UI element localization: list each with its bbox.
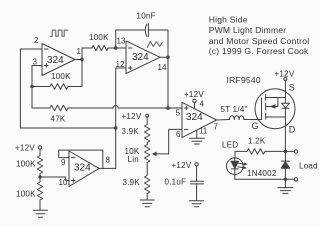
node dot divider midpoint xyxy=(38,175,41,178)
wire oscillator output xyxy=(75,48,82,87)
svg-text:7: 7 xyxy=(214,123,219,132)
potentiometer 10K Lin xyxy=(125,145,169,165)
svg-text:and Motor Speed Control: and Motor Speed Control xyxy=(209,36,310,46)
capacitor C2 0.1uF bypass xyxy=(165,166,204,200)
+12V terminal bypass xyxy=(172,161,199,170)
svg-text:S: S xyxy=(289,83,295,93)
op-amp U1a oscillator 324 xyxy=(33,36,82,76)
wire pin12 stub and node B vertical xyxy=(116,68,126,168)
load terminal bottom xyxy=(294,178,297,181)
svg-text:0.1uF: 0.1uF xyxy=(165,177,187,186)
title text xyxy=(209,14,310,56)
svg-text:13: 13 xyxy=(117,37,126,46)
wire 47K row to pin5 xyxy=(118,107,182,109)
svg-text:IRF9540: IRF9540 xyxy=(227,75,261,85)
inductor L1 5T xyxy=(221,105,248,119)
load terminal top xyxy=(285,150,297,153)
resistor R 1.2K xyxy=(235,137,285,155)
svg-text:+12V: +12V xyxy=(122,112,142,121)
wire pin2 to node B xyxy=(20,49,115,128)
ground load xyxy=(278,179,293,193)
wire midpoint to pin10 xyxy=(40,177,69,181)
transistor Q1 IRF9540 xyxy=(227,75,296,135)
diode D1 1N4002 flyback xyxy=(247,161,290,179)
wire drain xyxy=(284,117,286,161)
svg-text:+12V: +12V xyxy=(184,90,204,99)
svg-text:9: 9 xyxy=(61,158,66,167)
svg-text:6: 6 xyxy=(176,130,181,139)
svg-text:47K: 47K xyxy=(51,115,66,124)
svg-text:1.2K: 1.2K xyxy=(248,137,266,146)
svg-text:100K: 100K xyxy=(16,190,36,199)
wire hop over vertical at 115.7 xyxy=(113,106,118,109)
node dot triangle node at comparator xyxy=(166,106,169,109)
svg-text:High Side: High Side xyxy=(209,14,248,24)
svg-text:324: 324 xyxy=(74,163,91,174)
resistor R 3.9K lower xyxy=(123,165,150,200)
ground left divider xyxy=(34,210,48,217)
node dot oscillator output xyxy=(80,58,83,61)
+12V terminal left divider xyxy=(15,144,42,153)
wire integrator output xyxy=(160,57,168,108)
svg-text:324: 324 xyxy=(47,55,64,66)
svg-text:324: 324 xyxy=(132,52,149,63)
svg-text:1: 1 xyxy=(77,47,82,56)
op-amp U1d integrator 324 xyxy=(116,37,167,74)
LED D2 indicator xyxy=(222,141,248,180)
wire bottom rail LED to load xyxy=(235,178,294,180)
svg-text:100K: 100K xyxy=(89,33,109,42)
svg-text:+12V: +12V xyxy=(15,144,35,153)
resistor 47K xyxy=(32,105,113,123)
wire inductor to gate xyxy=(244,119,262,121)
svg-text:3.9K: 3.9K xyxy=(123,178,141,187)
node dot bottom rail xyxy=(284,178,287,181)
wire pin3 xyxy=(32,66,42,109)
svg-text:Lin: Lin xyxy=(128,155,139,164)
node junction dot feedback/pin3 xyxy=(30,85,33,88)
svg-text:1N4002: 1N4002 xyxy=(247,169,277,178)
wire wiper to pin6 xyxy=(169,129,182,154)
svg-text:100K: 100K xyxy=(16,160,36,169)
svg-text:+12V: +12V xyxy=(172,161,192,170)
resistor R 100K lower divider xyxy=(16,177,43,210)
svg-text:3.9K: 3.9K xyxy=(122,127,140,136)
svg-text:14: 14 xyxy=(158,63,167,72)
svg-text:8: 8 xyxy=(106,156,111,165)
square wave icon xyxy=(50,30,68,36)
svg-text:Load: Load xyxy=(299,162,318,171)
node dot B xyxy=(114,126,117,129)
svg-text:5: 5 xyxy=(176,109,181,118)
ground bypass xyxy=(190,201,204,207)
svg-text:5T 1/4": 5T 1/4" xyxy=(221,105,248,114)
ground pot chain xyxy=(140,200,154,207)
node dot integrator output xyxy=(166,56,169,59)
svg-text:G: G xyxy=(252,121,259,131)
op-amp U1b comparator 324 xyxy=(176,100,219,140)
capacitor C1 10nF feedback xyxy=(116,12,168,58)
svg-text:D: D xyxy=(289,125,296,135)
+12V terminal comparator pin4 xyxy=(184,90,204,109)
resistor R 3.9K upper xyxy=(122,117,150,144)
svg-text:10nF: 10nF xyxy=(137,12,156,21)
+12V terminal MOSFET source xyxy=(275,69,295,97)
wire pin13 stub xyxy=(116,47,126,49)
op-amp U1c reference follower 324 xyxy=(59,151,111,187)
wire follower feedback loop pin9 xyxy=(59,150,103,169)
resistor R 100K upper divider xyxy=(16,149,43,177)
node dot drain 1.2K xyxy=(284,150,287,153)
node dot pin13 xyxy=(114,46,117,49)
resistor 100K oscillator feedback xyxy=(32,72,82,89)
svg-text:LED: LED xyxy=(222,141,238,150)
svg-text:4: 4 xyxy=(200,100,205,109)
triangle wave icon xyxy=(147,42,162,48)
ground comparator pin11 xyxy=(189,130,204,144)
+12V terminal pot chain xyxy=(122,112,149,121)
wire follower output to node B xyxy=(99,167,116,169)
svg-text:PWM Light Dimmer: PWM Light Dimmer xyxy=(209,25,287,35)
svg-text:11: 11 xyxy=(199,127,208,136)
svg-text:324: 324 xyxy=(186,112,203,123)
wire comparator output xyxy=(217,119,230,122)
svg-text:+12V: +12V xyxy=(275,69,295,78)
svg-text:100K: 100K xyxy=(51,72,71,81)
svg-text:10: 10 xyxy=(59,178,68,187)
svg-text:2: 2 xyxy=(34,36,39,45)
resistor 100K to integrator xyxy=(82,33,116,51)
svg-text:(c) 1999 G. Forrest Cook: (c) 1999 G. Forrest Cook xyxy=(209,46,309,56)
